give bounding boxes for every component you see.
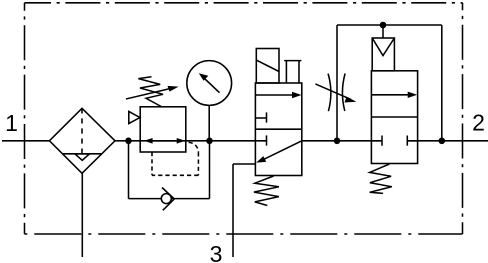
wire: main line pilot valve outlet to port 2 [407,140,488,142]
solenoid valve return spring [254,176,279,206]
wire: main line valve outlet to pilot valve inlet [302,140,382,142]
junction: throttle branch on main line [334,138,341,145]
pilot valve blocked outlet (rest position) [407,136,417,146]
pressure gauge [187,61,232,106]
filter with water separator [49,108,115,173]
wire: throttle branch vertical [336,25,338,141]
manual override button [284,61,301,83]
wire: filter condensate drain [81,173,83,257]
check valve (bypass) [161,188,174,211]
regulator adjustment spring [138,77,163,107]
junction: output branch on main line [439,138,446,145]
wire: bypass loop right leg [209,141,211,199]
pressure regulator body [140,107,186,152]
junction: pilot tap on feedback line [380,22,387,29]
wire: exhaust to port 3 (horizontal) [233,163,255,165]
regulator relief vent triangle [129,111,140,123]
solenoid valve blocked inlet (rest position) [266,135,268,145]
throttle valve (adjustable restrictor) [315,74,356,112]
pilot valve blocked inlet (rest position) [371,136,382,146]
junction: bypass branch (left) [125,138,132,145]
wire: main line port 1 to filter [2,140,49,142]
pilot valve body (2 position, 2/2) [371,71,417,164]
wire: bypass loop left leg [128,141,130,199]
pilot valve return spring [370,164,392,193]
wire: pilot stem [382,25,384,38]
junction: gauge / bypass (right) [206,138,213,145]
pneumatic pilot actuator [372,38,394,71]
pilot valve flow arrow (actuated position) [371,92,417,98]
solenoid valve exhaust path arrow (rest position) [256,141,302,163]
svg-text:1: 1 [5,110,18,136]
wire: gauge stem [208,105,210,141]
wire: top feedback line [337,24,442,26]
wire: exhaust to port 3 (vertical) [232,164,234,257]
enclosure boundary (dash-dot service-unit frame) [25,3,463,234]
wire: output branch vertical [441,25,443,141]
solenoid coil [256,49,279,84]
svg-text:2: 2 [472,110,485,136]
wire: main line filter to solenoid valve inlet [115,140,267,142]
wire: bypass loop bottom right [171,198,209,200]
svg-text:3: 3 [210,241,223,263]
regulator pilot line (dashed feedback) [152,142,198,175]
solenoid valve body (2 position, 3/2) [255,83,301,176]
wire: bypass loop bottom left [129,198,162,200]
solenoid valve flow arrow (actuated position) [255,92,301,98]
solenoid valve blocked exhaust (actuated position) [255,112,266,122]
regulator adjustment arrow [126,86,179,99]
